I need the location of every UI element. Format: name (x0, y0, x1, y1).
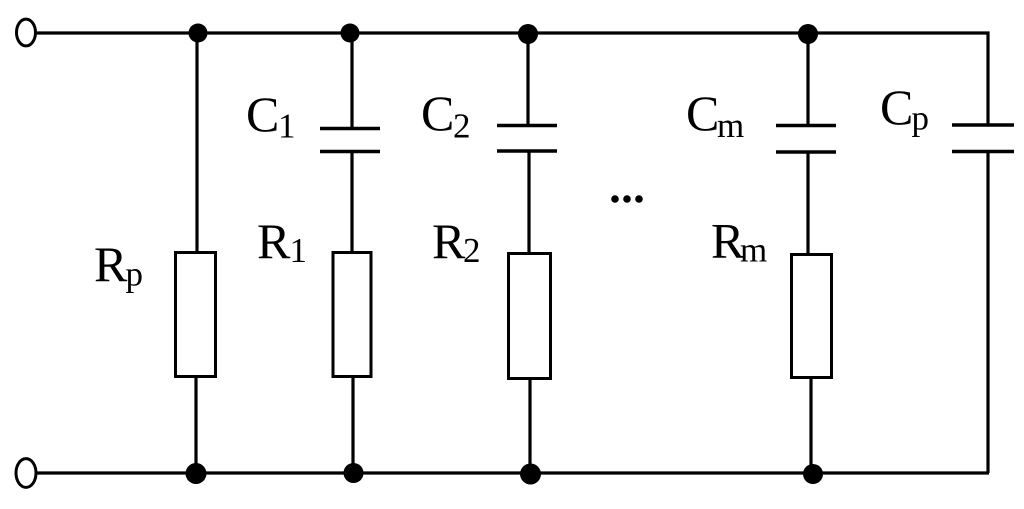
svg-text:C: C (686, 85, 719, 141)
svg-text:1: 1 (278, 107, 296, 146)
svg-text:C: C (421, 85, 454, 141)
svg-text:R: R (432, 213, 466, 269)
svg-text:1: 1 (290, 231, 308, 270)
svg-text:p: p (126, 254, 144, 293)
svg-text:R: R (257, 213, 291, 269)
svg-text:R: R (94, 236, 128, 292)
svg-text:p: p (912, 98, 930, 137)
svg-text:m: m (740, 231, 767, 270)
svg-text:C: C (880, 79, 913, 135)
svg-text:m: m (717, 106, 744, 145)
svg-text:2: 2 (463, 231, 481, 270)
svg-text:C: C (246, 86, 279, 142)
svg-text:2: 2 (453, 106, 471, 145)
